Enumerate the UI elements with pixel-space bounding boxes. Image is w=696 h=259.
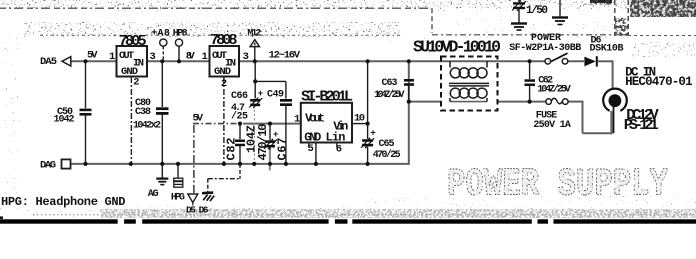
svg-text:D5 D6: D5 D6	[186, 204, 209, 215]
svg-text:HEC0470-01: HEC0470-01	[625, 75, 693, 89]
svg-text:C66: C66	[231, 91, 248, 102]
svg-text:SI-B201L: SI-B201L	[301, 88, 353, 106]
svg-text:2: 2	[133, 77, 139, 89]
svg-text:6: 6	[336, 144, 342, 156]
svg-text:5: 5	[308, 143, 314, 155]
svg-text:C38: C38	[135, 107, 151, 118]
svg-text:+A8: +A8	[151, 28, 170, 39]
svg-text:2: 2	[221, 78, 227, 90]
svg-text:OUT: OUT	[119, 50, 134, 62]
svg-text:DAG: DAG	[40, 160, 56, 172]
svg-text:+: +	[258, 89, 263, 99]
svg-text:SF-W2P1A-30BB: SF-W2P1A-30BB	[509, 43, 581, 54]
svg-text:470/25: 470/25	[373, 149, 401, 161]
svg-text:1/50: 1/50	[526, 5, 548, 17]
svg-text:+: +	[370, 129, 375, 139]
svg-text:M12: M12	[247, 28, 261, 39]
svg-text:GND: GND	[214, 66, 231, 78]
svg-text:104Z/25V: 104Z/25V	[374, 89, 405, 101]
svg-text:10: 10	[354, 112, 365, 124]
svg-text:C49: C49	[267, 90, 284, 101]
svg-text:250V 1A: 250V 1A	[533, 120, 571, 131]
svg-text:1042: 1042	[54, 115, 75, 126]
svg-text:3: 3	[243, 51, 249, 63]
svg-text:C63: C63	[382, 78, 398, 89]
svg-text:8V: 8V	[186, 50, 196, 62]
svg-text:DSK10B: DSK10B	[590, 44, 624, 55]
svg-text:AG: AG	[148, 189, 159, 200]
svg-text:1: 1	[109, 51, 115, 63]
svg-text:C67: C67	[276, 138, 290, 161]
svg-text:7805: 7805	[119, 32, 147, 50]
svg-text:5V: 5V	[87, 50, 98, 62]
svg-text:HPG: HPG	[171, 192, 185, 203]
svg-text:1: 1	[294, 113, 300, 125]
svg-text:DA5: DA5	[40, 56, 57, 68]
svg-text:SU10VD-10010: SU10VD-10010	[413, 38, 501, 57]
svg-text:C65: C65	[379, 139, 395, 150]
svg-text:HPG: Headphone GND: HPG: Headphone GND	[1, 195, 126, 209]
svg-text:Lin: Lin	[326, 130, 346, 144]
svg-text:PS-121: PS-121	[624, 116, 659, 134]
svg-text:HP8: HP8	[173, 28, 188, 39]
svg-text:/25: /25	[231, 111, 248, 123]
svg-text:Vout: Vout	[305, 111, 325, 125]
svg-text:3: 3	[150, 51, 156, 63]
svg-text:470/10: 470/10	[256, 124, 270, 161]
svg-text:104Z/25V: 104Z/25V	[537, 83, 571, 95]
svg-text:5V: 5V	[193, 112, 204, 124]
svg-text:1042x2: 1042x2	[133, 121, 161, 132]
svg-text:C82: C82	[225, 138, 239, 161]
svg-text:7808: 7808	[210, 31, 238, 49]
svg-text:1: 1	[202, 51, 208, 63]
svg-text:12~16V: 12~16V	[269, 50, 301, 62]
